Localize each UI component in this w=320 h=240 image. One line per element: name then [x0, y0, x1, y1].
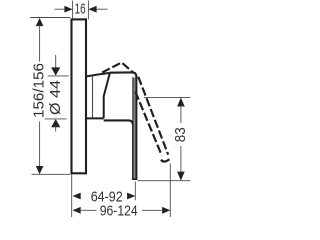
svg-text:Ø 44: Ø 44	[47, 80, 64, 115]
lever tip extension line	[169, 164, 171, 218]
dim 64-92 left arrow	[73, 193, 81, 200]
dim 64-92 right arrow	[127, 193, 135, 200]
dim 156/156 bottom extension line	[32, 173, 71, 175]
dim Ø44 top extension line	[48, 75, 69, 77]
dim Ø44 upper stub with down arrow	[55, 55, 57, 68]
dim 16 extension line right	[87, 1, 89, 20]
sleeve front rim line	[92, 77, 94, 118]
lever blade back line	[132, 124, 134, 179]
dim Ø44 lower stub with up arrow	[51, 119, 60, 127]
dim 96-124 right arrow	[162, 207, 170, 214]
lever blade gray core	[134, 78, 136, 179]
dim 83 bottom extension line	[138, 180, 191, 182]
dim Ø44 bottom extension line	[45, 118, 67, 120]
dim 83 top extension line	[144, 96, 191, 98]
wall extension line below plate	[71, 175, 73, 218]
dim 16 extension line left	[72, 1, 74, 19]
dashed lever blade front line	[138, 77, 168, 155]
lever blade front line	[135, 76, 137, 179]
dim 83 line upper segment with up arrow	[177, 98, 185, 107]
handle boss top edge	[110, 72, 137, 77]
dim 156/156 top extension line	[30, 17, 70, 19]
dashed handle rotated top outline	[101, 63, 133, 74]
svg-text:16: 16	[75, 1, 86, 18]
dim 16 left arrow	[64, 6, 72, 13]
svg-text:156/156: 156/156	[31, 63, 48, 118]
escutcheon plate outline	[72, 19, 87, 173]
dim 156/156 line upper segment with up arrow	[36, 18, 44, 26]
lever blade bottom cap	[132, 178, 137, 180]
svg-text:83: 83	[172, 127, 189, 142]
dashed lever blade back line	[135, 92, 162, 156]
handle boss bottom edge	[104, 120, 133, 124]
handle boss back slant	[104, 73, 110, 118]
svg-text:96-124: 96-124	[100, 203, 138, 220]
dashed lever tip cap	[161, 159, 169, 161]
dim 156/156 line lower segment with down arrow	[39, 122, 41, 169]
sleeve top edge	[86, 73, 109, 77]
body front extension line	[134, 181, 136, 200]
dim 96-124 left arrow	[73, 207, 81, 214]
dim 83 line lower segment with down arrow	[180, 146, 182, 174]
sleeve bottom edge	[86, 117, 103, 119]
dim 16 right arrow	[88, 6, 96, 13]
lever blade inner line	[132, 77, 134, 122]
